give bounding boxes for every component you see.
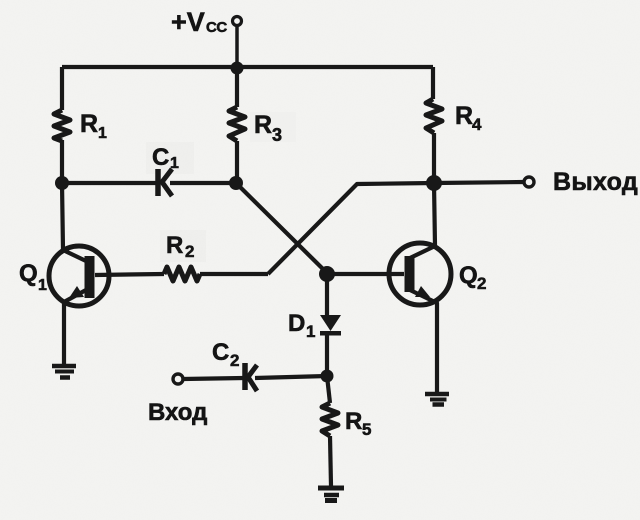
svg-text:R: R xyxy=(166,232,183,259)
svg-text:1: 1 xyxy=(38,277,47,294)
svg-text:2: 2 xyxy=(230,351,239,370)
svg-text:D: D xyxy=(288,310,305,337)
svg-text:C: C xyxy=(212,339,229,366)
svg-text:CC: CC xyxy=(206,19,227,36)
svg-text:2: 2 xyxy=(185,242,194,261)
svg-text:Вход: Вход xyxy=(148,399,207,426)
svg-text:Q: Q xyxy=(459,262,478,289)
svg-text:R: R xyxy=(254,111,272,139)
svg-text:C: C xyxy=(152,144,169,171)
svg-text:4: 4 xyxy=(472,115,482,134)
svg-text:Q: Q xyxy=(19,260,38,287)
svg-text:5: 5 xyxy=(362,420,371,439)
svg-text:R: R xyxy=(345,408,362,435)
svg-text:2: 2 xyxy=(477,274,486,293)
svg-text:3: 3 xyxy=(272,125,282,145)
svg-text:R: R xyxy=(80,110,98,138)
svg-text:1: 1 xyxy=(306,322,315,341)
svg-text:Выход: Выход xyxy=(553,168,638,196)
svg-text:1: 1 xyxy=(170,155,179,172)
svg-text:1: 1 xyxy=(98,125,107,142)
svg-text:+V: +V xyxy=(171,7,205,37)
svg-text:R: R xyxy=(455,102,473,130)
